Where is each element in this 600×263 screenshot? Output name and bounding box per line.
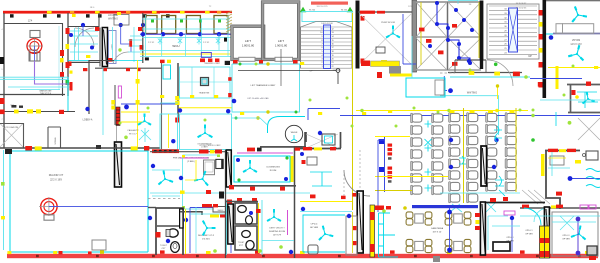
wall y111 with blobs	[0, 111, 75, 113]
cyan tee mid	[310, 172, 332, 186]
green level marker R	[347, 8, 352, 12]
lift right outer edge	[261, 1, 300, 61]
r wall h1	[567, 84, 600, 86]
left lower cyan box	[160, 114, 178, 150]
lift left shaft wall	[232, 26, 264, 59]
xroom diag 2	[448, 2, 481, 37]
yellow column divider	[544, 226, 546, 258]
waiting yellow dot	[496, 84, 499, 87]
blue dot toilet2	[166, 239, 170, 243]
r green dot mid	[531, 138, 535, 142]
pump top wall	[358, 11, 415, 13]
gray tick A	[388, 157, 392, 160]
opd3 blue dot2	[576, 251, 581, 256]
magenta vline dirty	[287, 210, 289, 235]
opd2 door arc2	[534, 208, 548, 222]
casualty cyan tangle	[139, 128, 151, 142]
blue dot t2	[249, 211, 253, 215]
delivery cyan inner	[190, 207, 226, 253]
wall x178 yellow blobs	[175, 96, 179, 105]
opd1 desk	[493, 242, 510, 251]
corner X room	[578, 118, 600, 140]
toilet door bar	[180, 209, 183, 228]
r yel seg h3	[559, 149, 566, 152]
ot table foot box	[30, 53, 40, 62]
wall y94.5	[0, 94, 65, 96]
chair header marks	[450, 110, 515, 113]
room2 cyan vline	[74, 28, 76, 60]
room cyan vline x59	[58, 26, 60, 90]
scatter yellow bits	[160, 62, 598, 115]
predelivery yellow mark	[210, 150, 215, 153]
opd door leaf2	[546, 209, 549, 254]
lift left outer edge	[231, 25, 265, 61]
svg-text:LIFT: 10 xBIG: x30 LOAD: LIFT: 10 xBIG: x30 LOAD	[247, 97, 269, 100]
stair tread numbers	[320, 29, 333, 69]
red cluster b	[213, 204, 218, 207]
r dashed stairs	[522, 190, 550, 204]
cyan Xtable mid	[425, 139, 432, 146]
cyan overall frame top right	[448, 0, 478, 2]
lobby tee line	[238, 71, 338, 85]
yellow vline blobs	[136, 79, 140, 105]
stair treads	[301, 27, 353, 68]
svg-text:111 226: 111 226	[333, 70, 341, 72]
counseling blue dot2	[284, 177, 288, 181]
yellow vline low	[352, 212, 354, 253]
lift right inner edge	[264, 3, 297, 58]
svg-text:1.80X1.80: 1.80X1.80	[242, 44, 255, 48]
anteroom X room	[0, 124, 23, 148]
stair2 outline	[487, 4, 539, 59]
blue dot opd4b	[301, 207, 305, 211]
svg-text:5: 5	[321, 51, 322, 53]
vip bed head	[556, 24, 563, 34]
lobby node circle	[336, 69, 340, 73]
r red mark w	[538, 82, 543, 87]
ot2 blue feed	[49, 206, 148, 208]
wall x305 segment	[304, 132, 306, 148]
red marks door bar	[352, 193, 356, 245]
yellow box below pump	[371, 61, 400, 67]
small cab mid	[307, 157, 317, 165]
r red seg h3	[548, 149, 558, 152]
wall y111 red blob2	[59, 110, 64, 114]
svg-text:SCRUB: SCRUB	[55, 137, 57, 145]
opd3 fan	[571, 226, 586, 240]
chair col mid1	[411, 113, 422, 195]
pump fan	[386, 26, 400, 38]
r yellow band v2	[541, 154, 545, 176]
stamp circle	[285, 125, 302, 142]
left room wall x161	[161, 63, 163, 150]
wc oval D	[246, 216, 253, 225]
x544 marks	[539, 10, 543, 88]
blue dot room2	[90, 46, 94, 50]
svg-text:21: 21	[332, 62, 334, 64]
wcu cyan sprinkles	[158, 37, 220, 45]
wcu purple rect	[201, 53, 211, 58]
rooms bottom wall y62	[68, 61, 100, 63]
svg-text:GF VER: GF VER	[310, 227, 319, 229]
svg-text:22'2 X 19'8: 22'2 X 19'8	[50, 179, 62, 182]
pump top red seg2	[377, 11, 385, 14]
svg-text:TRIAGE RM: TRIAGE RM	[199, 92, 210, 95]
predelivery red mark2	[215, 150, 222, 154]
counseling green dot	[237, 178, 240, 181]
cyan hline y212 corr	[300, 211, 352, 213]
vip fan 1	[572, 7, 587, 22]
wcu dim texts	[148, 42, 209, 44]
opd wall top gray	[520, 207, 600, 209]
xroom top wall	[416, 1, 481, 3]
svg-text:DUMPING ROOM: DUMPING ROOM	[269, 231, 286, 233]
wcu box 3	[186, 16, 200, 34]
svg-text:1: 1	[321, 66, 322, 68]
ot left lime dot	[1, 182, 5, 186]
yellow line chairs bot2	[375, 190, 412, 192]
corridor wall marks3	[66, 62, 70, 68]
counseling red on wall2	[247, 148, 255, 152]
svg-text:320 110 225: 320 110 225	[317, 6, 329, 8]
blue vline chairs	[384, 136, 386, 192]
blue dot casualty	[124, 105, 129, 110]
svg-text:3: 3	[321, 59, 322, 61]
svg-text:DELIVERY OT-2: DELIVERY OT-2	[198, 235, 215, 237]
wcu green dots	[151, 20, 221, 23]
red feeder line top	[3, 11, 232, 13]
pd blue dot	[151, 164, 155, 168]
ac wall piece	[389, 66, 401, 74]
r wall h2	[568, 112, 600, 114]
wall x178 red blob	[175, 118, 179, 123]
svg-text:26: 26	[504, 44, 506, 46]
svg-text:27: 27	[504, 39, 506, 41]
svg-text:2'-2 1/2: 2'-2 1/2	[148, 42, 154, 44]
caf bottom gray sq	[433, 256, 440, 262]
dashed vline center	[359, 150, 361, 188]
lobby door leaf	[116, 144, 120, 185]
stair2 blue dot top	[467, 59, 471, 63]
r room cyan bits	[577, 92, 598, 108]
delivery mid wall	[180, 212, 202, 215]
svg-text:4: 4	[321, 55, 322, 57]
rooms cyan web	[70, 27, 142, 62]
opd door bar v	[480, 202, 485, 255]
r device knob	[583, 154, 586, 157]
waiting blue dot	[448, 88, 453, 93]
corridor red y191	[206, 190, 211, 194]
svg-text:OPD-3 /: OPD-3 /	[562, 235, 570, 237]
svg-text:14: 14	[332, 36, 334, 38]
svg-text:13: 13	[332, 32, 334, 34]
major ot cyan border	[10, 151, 148, 252]
ot left yellow dot	[1, 216, 5, 219]
pump right wall thick	[412, 0, 417, 72]
yellow table line 1	[463, 108, 465, 203]
ot1 right wall	[62, 23, 64, 96]
caf blue vline mid	[449, 208, 451, 253]
cyan vline x103	[102, 68, 104, 135]
caf counter cyan	[379, 213, 399, 257]
corridor red marks y68	[83, 68, 141, 71]
caf yellow dot	[403, 206, 407, 210]
svg-text:OPD-1 /: OPD-1 /	[506, 237, 514, 239]
svg-text:30: 30	[504, 26, 506, 28]
svg-text:9: 9	[2, 69, 3, 71]
svg-text:(2 BED): (2 BED)	[187, 161, 195, 163]
green dot stair2	[494, 63, 498, 67]
r cyan vline mid	[551, 152, 553, 176]
svg-text:18: 18	[332, 51, 334, 53]
corridor yellow y201	[300, 201, 352, 203]
r red seg h3b	[567, 149, 576, 152]
column A red band	[370, 212, 375, 220]
column A red band2	[370, 244, 375, 252]
svg-text:11: 11	[321, 29, 323, 31]
opd4 cyan border	[303, 215, 345, 252]
corridor red blocks y196	[310, 195, 346, 200]
caf green dot	[382, 209, 386, 213]
caf table 3	[445, 212, 471, 225]
opd1 blue dot	[510, 216, 514, 220]
stair red landing bar	[311, 2, 348, 5]
yellow vline x137	[137, 60, 139, 147]
center door jamb dash	[343, 170, 345, 196]
ot top wall yellow blob	[35, 146, 42, 150]
door panel rect	[109, 31, 117, 64]
yellow column red band	[540, 238, 550, 243]
triage inner cyan	[180, 67, 231, 98]
svg-text:WAITING: WAITING	[108, 18, 118, 21]
svg-text:4: 4	[2, 29, 3, 31]
caf blue dot mid2	[447, 248, 452, 253]
ot1 right marks red2	[60, 72, 64, 77]
svg-text:WCU: WCU	[172, 44, 179, 48]
svg-text:MAJOR OT: MAJOR OT	[49, 173, 64, 177]
wcu black dot	[224, 38, 227, 42]
major ot top wall	[0, 147, 160, 149]
scatter green dots	[119, 63, 575, 128]
vip partition wall	[553, 33, 600, 35]
stair2 black bar low	[480, 58, 483, 69]
lobby corner dots	[235, 62, 298, 119]
predelivery bar dashes	[154, 150, 177, 152]
blue dot equip	[318, 131, 322, 135]
blue dot cab	[300, 152, 304, 156]
r blue hline2	[568, 178, 600, 180]
lobby lower cyan	[232, 118, 268, 125]
wall y111 dark dashes	[11, 105, 23, 108]
ot light cross h	[26, 45, 43, 47]
room2 cyan hline	[70, 35, 98, 37]
cyan tangle 2	[495, 176, 505, 196]
red mark toilet	[156, 232, 161, 238]
dirty fan	[267, 209, 281, 221]
counseling fan	[243, 160, 257, 172]
pump top red seg	[360, 11, 375, 14]
caf red block	[375, 206, 384, 211]
svg-text:19: 19	[332, 55, 334, 57]
xroom yellow vline L	[420, 2, 422, 65]
chair col big3	[486, 113, 497, 192]
opd3 blue dot	[576, 217, 581, 222]
xroom mid wall	[416, 36, 481, 38]
bottom confetti	[7, 250, 589, 254]
wcu black sq bottom	[145, 57, 149, 60]
room blue stubs	[83, 25, 143, 36]
lobby cyan border	[232, 64, 300, 112]
r red mark h1	[586, 82, 591, 86]
wcu box 2	[162, 16, 176, 34]
xroom diag 1	[416, 2, 447, 37]
r room yellow dot	[575, 95, 579, 99]
yellow vline x168 low	[168, 114, 170, 148]
blue dot toilet3	[184, 218, 188, 222]
wall y146 left of stamp	[260, 146, 302, 148]
vip blue dot	[549, 35, 554, 40]
stair stringer rungs	[324, 27, 330, 65]
counseling left pilaster	[226, 150, 231, 187]
opd3 blue vline	[577, 221, 579, 251]
xroom center wall	[447, 2, 449, 70]
equip device	[322, 134, 335, 145]
blue drop path rooms	[121, 27, 131, 52]
gray tick B	[388, 180, 392, 183]
anteroom walls	[0, 124, 24, 149]
pd bed box	[204, 160, 215, 175]
blue dot opd4	[347, 214, 351, 218]
lift red marks	[233, 60, 298, 64]
wcu box 1	[146, 16, 158, 34]
svg-text:AUTOCLAVE RM: AUTOCLAVE RM	[4, 126, 19, 129]
corr cyan y103	[160, 102, 178, 104]
cyan band y77	[0, 77, 68, 79]
blue bus y115	[340, 115, 600, 117]
stair2 treads	[489, 6, 537, 54]
waiting blue L	[444, 76, 447, 91]
stair2 bottom walls	[448, 60, 522, 73]
opd left wall marks	[475, 213, 480, 230]
vip fan 2	[568, 45, 583, 60]
corr blue dots y110	[178, 108, 231, 113]
green dots on buses	[360, 109, 534, 118]
lift door sill 2	[275, 57, 293, 61]
svg-text:SHELF: SHELF	[217, 210, 224, 212]
caf table 1	[406, 212, 432, 225]
r wall elbow	[546, 186, 560, 209]
blue vline x403	[403, 14, 416, 64]
xroom red marks	[419, 24, 458, 66]
equip wall red seg	[303, 147, 312, 150]
r blue dot2	[568, 176, 573, 181]
waiting cyan line y95	[440, 96, 499, 135]
svg-text:34: 34	[504, 9, 506, 11]
counseling yellow band	[291, 156, 294, 182]
counseling dark tick	[257, 148, 262, 152]
svg-text:TRANSFER LOBBY: TRANSFER LOBBY	[204, 62, 221, 65]
blue sq node2	[379, 167, 384, 172]
corridor second wall y68	[95, 67, 162, 69]
opd cyan tangle	[552, 216, 596, 230]
ot top wall dark tick	[96, 145, 101, 149]
corridor wall marks	[66, 28, 70, 34]
predelivery red bar	[152, 149, 179, 153]
pd yellow drop	[185, 160, 196, 180]
svg-text:UP: UP	[528, 54, 532, 58]
dark block shelf	[219, 192, 224, 199]
stair2 lower room walls	[455, 60, 486, 72]
svg-text:OPD-4: OPD-4	[311, 224, 318, 226]
bottom bar dark marks	[36, 255, 581, 257]
wall left outer	[3, 13, 5, 148]
room red marks	[95, 27, 144, 62]
stamp fan glyph	[291, 135, 297, 141]
door frame boxes top	[114, 15, 129, 26]
cyan vline x68	[67, 77, 69, 112]
pd fan 1	[159, 171, 174, 185]
cyan tables mid	[425, 121, 432, 192]
door leaf diag	[104, 30, 107, 65]
counseling green dot2	[285, 156, 288, 159]
blue dot toilet	[148, 216, 152, 220]
svg-text:VIP RM: VIP RM	[572, 39, 580, 42]
counseling blue dot	[236, 158, 240, 162]
lime dot rooms	[118, 48, 121, 51]
svg-text:30 31 32 33: 30 31 32 33	[516, 8, 527, 10]
red mark y192	[556, 192, 562, 196]
svg-text:98' X 17': 98' X 17'	[129, 134, 138, 136]
cyan big right frame	[458, 0, 600, 100]
equip room walls	[300, 132, 341, 149]
pd fan 2	[194, 171, 208, 186]
counseling bottom wall	[225, 185, 296, 187]
opd cyan hline y216	[520, 215, 600, 217]
vip bed	[563, 24, 594, 34]
red striped bar lobby	[116, 107, 120, 126]
ac yellow band	[390, 74, 412, 77]
cyan hline dirty	[262, 240, 294, 242]
blue riser dots	[428, 1, 474, 65]
lobby wall x89 v	[88, 60, 90, 114]
wcu blue bus y34	[140, 33, 232, 35]
svg-text:33: 33	[504, 13, 506, 15]
ot1 right marks red	[60, 50, 64, 56]
blue dot left	[85, 107, 89, 111]
caf red block2	[386, 206, 391, 210]
room2 door arc	[75, 28, 94, 47]
yellow vline t2	[258, 203, 260, 253]
svg-text:WH/GN: WH/GN	[291, 132, 298, 134]
wcu cyan vlines	[146, 15, 229, 56]
svg-text:7: 7	[2, 119, 3, 121]
blue sq node	[379, 139, 384, 144]
ot2 cross h	[39, 206, 59, 208]
x68 wall red blob	[69, 62, 72, 67]
svg-text:LIFT: LIFT	[278, 39, 284, 43]
dashed line y73	[440, 72, 455, 74]
svg-text:LOUNGE: LOUNGE	[108, 15, 118, 17]
red mark cab	[302, 160, 306, 164]
opd3 magenta rect	[580, 205, 588, 209]
predelivery wall y151	[150, 151, 232, 153]
wc donut F	[246, 241, 254, 250]
svg-text:LIFT: LIFT	[245, 39, 251, 43]
triage device inner	[202, 79, 207, 84]
svg-text:24: 24	[504, 53, 506, 55]
pd magenta hline	[180, 157, 208, 159]
caf blue dot mid	[447, 210, 452, 215]
